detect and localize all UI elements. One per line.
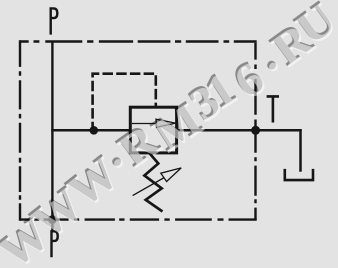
node C junction dot (P port on border) [48,215,57,224]
wire: elbow down to tank [299,129,302,172]
valve internal flow arrowhead [156,119,176,127]
wire: main horizontal line left of valve [51,129,131,132]
border left side [19,40,21,221]
wire: main horizontal line right of valve to elbow [176,129,302,132]
node B junction dot (T port on border) [251,126,260,135]
spring (zigzag) [144,153,162,211]
tank symbol [285,169,313,180]
border right side [254,43,256,220]
valve internal flow line [132,123,160,125]
node A junction dot [90,126,99,135]
border bottom side [20,218,257,220]
relief valve body (square) [130,107,176,153]
port label T [267,96,279,122]
wire: P supply vertical line [51,42,53,231]
port label P (top) [51,8,58,34]
adjustment arrowhead [161,168,181,182]
pilot line (dashed) from node A up and over to valve top [93,74,156,129]
adjustment arrow shaft [133,176,167,196]
port label P (bottom) [52,231,58,257]
border top side [20,40,257,42]
enclosure border (dash-dot subplate boundary) [20,40,257,221]
